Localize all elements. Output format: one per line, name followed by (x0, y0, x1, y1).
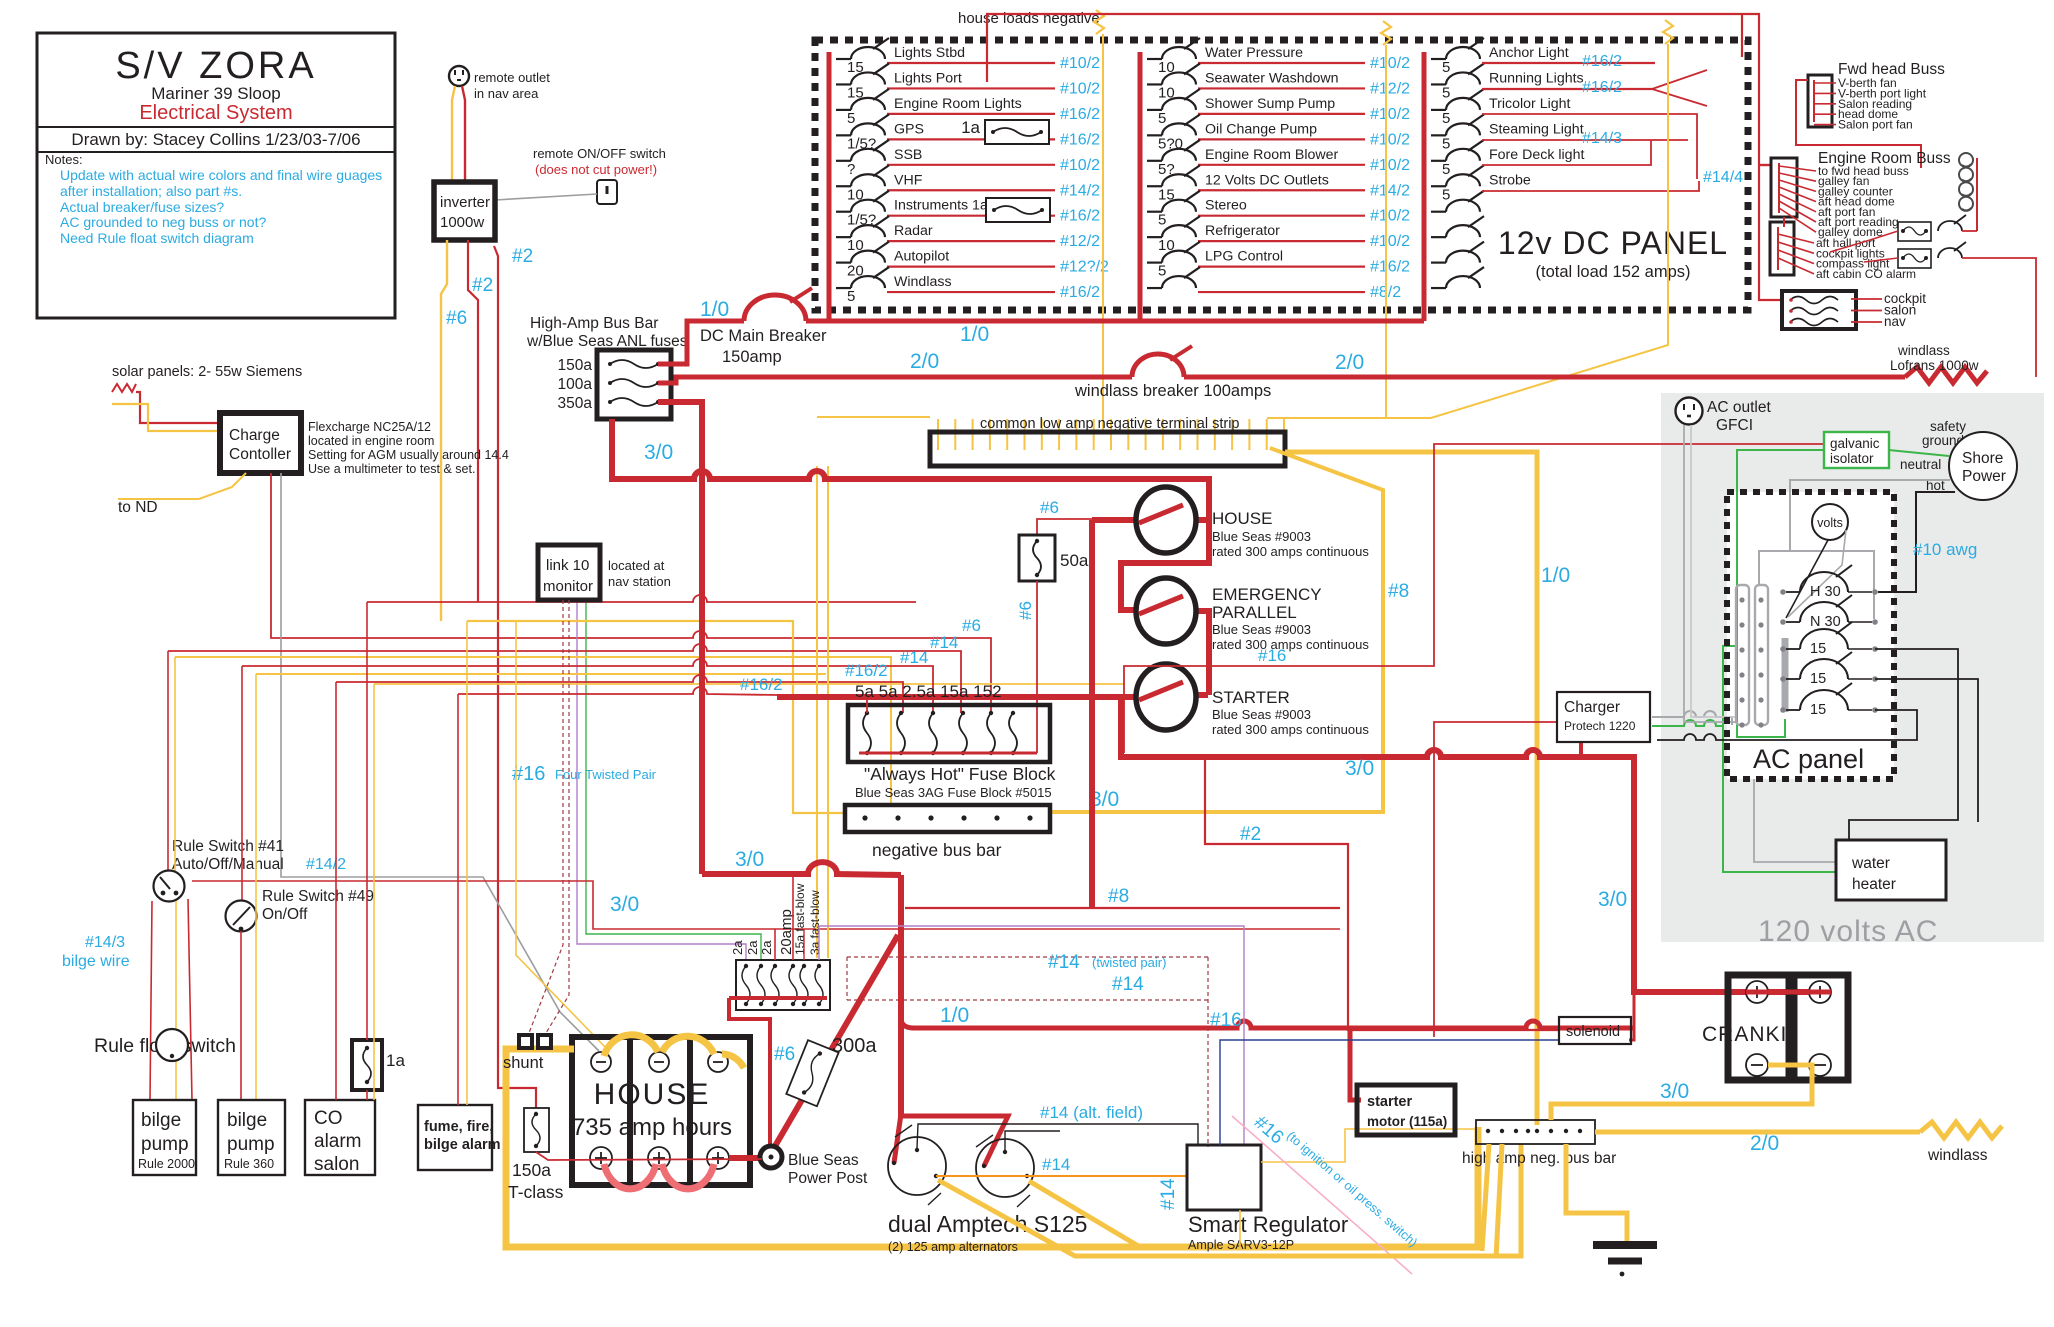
svg-text:#10/2: #10/2 (1370, 106, 1410, 123)
svg-text:#10/2: #10/2 (1370, 208, 1410, 225)
gang switch dots (1789, 298, 1793, 324)
svg-text:#2: #2 (472, 275, 493, 296)
wire red center vertical (898, 875, 904, 1116)
svg-text:pump: pump (227, 1134, 275, 1155)
svg-text:#14/4: #14/4 (1703, 169, 1743, 186)
svg-text:link 10: link 10 (546, 557, 589, 574)
wire red Radar feed (887, 240, 1055, 242)
high amp bus bar dots (1486, 1129, 1582, 1133)
svg-text:Autopilot: Autopilot (894, 249, 949, 265)
svg-text:#14: #14 (930, 633, 958, 652)
breaker Steaming Light 5A (1431, 114, 1484, 152)
starter motor box (1357, 1085, 1455, 1135)
wire gray remote switch to inverter (495, 194, 597, 200)
yellow squiggle top 3 (1663, 20, 1673, 44)
wire red rule41 up (167, 651, 169, 872)
wire yellow negative drop 1 (1102, 34, 1104, 432)
svg-text:#10 awg: #10 awg (1913, 540, 1977, 559)
svg-text:Rule 360: Rule 360 (224, 1157, 274, 1171)
svg-text:Charger: Charger (1564, 699, 1620, 716)
wire red controller down bundle #6 (271, 473, 991, 713)
pink ignition wire (1232, 1116, 1412, 1274)
svg-text:in nav area: in nav area (474, 86, 539, 101)
battery 1 plus terminal (590, 1147, 612, 1169)
wire yellow busbar drop left1 (1482, 1144, 1489, 1251)
breaker Anchor Light 5A (1431, 38, 1484, 76)
svg-text:(twisted pair): (twisted pair) (1092, 955, 1166, 970)
battery 2 plus terminal (648, 1147, 670, 1169)
wire yellow shunt trunk (506, 1049, 1478, 1247)
wire navy reg to solenoid (1220, 1040, 1559, 1145)
wire red small block bottom bar (729, 996, 827, 1000)
wire red 1/0 panel trunk (806, 319, 1424, 324)
wire red Engine Room Blower feed (1198, 164, 1365, 166)
svg-text:#16/2: #16/2 (1370, 259, 1410, 276)
svg-text:Salon port fan: Salon port fan (1838, 118, 1913, 132)
svg-text:735 amp hours: 735 amp hours (572, 1114, 732, 1141)
wire red house bus 3/0 (1089, 520, 1095, 908)
gang switch wave 1 (1790, 297, 1838, 304)
solenoid box (1559, 1017, 1631, 1044)
AC panel interior white (1727, 492, 1894, 779)
wire yellow alt1 neg (938, 1144, 1521, 1256)
wire red fwd buss stub Salon reading (1814, 103, 1836, 105)
breaker spare col2 A (1147, 267, 1200, 288)
svg-text:remote outlet: remote outlet (474, 70, 550, 85)
svg-text:remote ON/OFF switch: remote ON/OFF switch (533, 146, 666, 161)
wire red erb2 stub compass light (1778, 250, 1814, 264)
yellow jumper tail (722, 1054, 744, 1068)
wire dashed link10 b (546, 600, 569, 1033)
wire yellow strip drop b (827, 466, 829, 958)
svg-text:#16/2: #16/2 (1060, 131, 1100, 148)
wire red 20amp riser (792, 875, 794, 960)
wire red charger stub (1579, 742, 1583, 757)
wire green isolator left (1737, 450, 1824, 737)
small fuse 5 (800, 964, 808, 1006)
wire red compass out (1962, 258, 2036, 377)
AC panel volts meter (1812, 504, 1848, 540)
GPS inline fuse 1a (961, 118, 1049, 144)
wire red crank plus link (1746, 990, 1831, 995)
svg-text:5: 5 (1158, 212, 1166, 229)
wire yellow rule41 down (175, 901, 177, 1100)
wire red steaming light (1482, 139, 1688, 141)
wire red 150a to main breaker (658, 321, 744, 364)
svg-text:shunt: shunt (503, 1054, 544, 1072)
svg-text:#6: #6 (962, 616, 981, 635)
gang switch wave 2 (1790, 308, 1838, 315)
breaker GPS 1/5?A (836, 114, 889, 152)
wire black alt2 field stub (1005, 1131, 1060, 1150)
yellow squiggle top 1 (1094, 10, 1104, 34)
wire red starter right (1196, 692, 1208, 698)
wire purple 3a wire (819, 926, 1244, 1145)
wire gray shore neutral (1790, 480, 1950, 619)
wire red Engine Room Lights feed (887, 113, 1055, 115)
svg-text:#16/2: #16/2 (1060, 284, 1100, 301)
breaker Autopilot 20A (836, 242, 889, 280)
wire gray outlet drop 2 (1691, 425, 1736, 717)
svg-text:Shore: Shore (1962, 450, 2003, 467)
svg-text:Rule 2000: Rule 2000 (138, 1157, 195, 1171)
wire red 350a to center trunk (658, 402, 702, 874)
wire gray volts right (1788, 530, 1846, 617)
wire red 12 Volts DC Outlets feed (1198, 189, 1365, 191)
12v DC panel dashed border (815, 40, 1748, 310)
svg-text:monitor: monitor (543, 578, 593, 595)
svg-text:#16: #16 (1210, 1010, 1242, 1031)
shunt block 1 (519, 1035, 532, 1048)
svg-text:Fore Deck light: Fore Deck light (1489, 147, 1584, 163)
small fuse 4 (789, 964, 797, 1006)
alternator 1 (888, 1137, 946, 1195)
svg-text:Engine Room Blower: Engine Room Blower (1205, 147, 1339, 163)
wire red running fan down (1652, 89, 1707, 106)
3-gang light switch box (1782, 291, 1856, 329)
wire black alt field (917, 1124, 1198, 1148)
wire red 1/0 elbow (901, 1018, 914, 1028)
svg-text:Running Lights: Running Lights (1489, 70, 1584, 86)
breaker Engine Room Blower 5?A (1147, 140, 1200, 178)
svg-text:3/0: 3/0 (1345, 757, 1374, 780)
ground symbol (1593, 1245, 1657, 1276)
wire red erb stub aft head dome (1779, 187, 1816, 202)
wire red house switch right (1196, 517, 1209, 523)
svg-text:Smart Regulator: Smart Regulator (1188, 1212, 1348, 1237)
svg-text:5: 5 (847, 110, 855, 127)
svg-text:2/0: 2/0 (910, 350, 939, 373)
negative bus bar dots (862, 815, 1032, 820)
battery switch HOUSE (1136, 487, 1196, 553)
svg-text:Actual breaker/fuse sizes?: Actual breaker/fuse sizes? (60, 199, 224, 215)
wire yellow bundle y657 to negbus (175, 657, 891, 805)
svg-text:EMERGENCY: EMERGENCY (1212, 585, 1322, 604)
svg-text:5: 5 (1158, 263, 1166, 280)
wire purple link10 to fuse1 (577, 600, 746, 960)
wire red rule41 down a (150, 901, 152, 1100)
svg-text:Auto/Off/Manual: Auto/Off/Manual (172, 856, 284, 873)
smart regulator box (1187, 1145, 1261, 1210)
svg-text:bilge wire: bilge wire (62, 953, 130, 970)
svg-text:#2: #2 (512, 246, 533, 267)
svg-text:Windlass: Windlass (894, 274, 952, 290)
breaker Oil Change Pump 5?0A (1147, 114, 1200, 152)
dashed twisted pair bottom (847, 999, 1208, 1001)
wire gray outlet drop 1 (1684, 425, 1736, 722)
svg-text:300a: 300a (832, 1035, 877, 1057)
cabin lamp 2 (1959, 168, 1973, 182)
svg-text:1a: 1a (386, 1051, 405, 1070)
wire red tricolor light (1482, 114, 1697, 179)
svg-text:Flexcharge NC25A/12: Flexcharge NC25A/12 (308, 420, 431, 434)
alt2 top dot (1003, 1150, 1007, 1154)
svg-text:Anchor Light: Anchor Light (1489, 45, 1569, 61)
inline fuse cockpit lights (1898, 222, 1931, 241)
svg-text:solenoid: solenoid (1566, 1024, 1620, 1040)
bus bar fuse 350a (608, 398, 660, 406)
wire red 3/0 center horizontal (702, 862, 901, 875)
wire red Lights Stbd feed (887, 62, 1055, 64)
breaker Shower Sump Pump 5A (1147, 89, 1200, 127)
battery 3 plus terminal (707, 1147, 729, 1169)
svg-text:1/0: 1/0 (940, 1004, 969, 1027)
breaker Lights Port 15A (836, 63, 889, 101)
svg-text:Steaming Light: Steaming Light (1489, 121, 1584, 137)
wire red always hot bottom bar (859, 752, 1037, 755)
wire yellow negative drop 3 (1267, 44, 1668, 418)
wire red erb link (1783, 217, 1785, 227)
bus bar fuse 100a (608, 379, 660, 387)
svg-text:(2) 125 amp alternators: (2) 125 amp alternators (888, 1240, 1018, 1254)
high amp neg bus bar box (1476, 1120, 1595, 1144)
breaker Stereo 5A (1147, 191, 1200, 229)
svg-text:#12/2: #12/2 (1060, 233, 1100, 250)
wire red lamps bus (1976, 158, 1978, 231)
wire black 15a loop right (1849, 649, 1958, 840)
svg-text:Lofrans 1000w: Lofrans 1000w (1890, 358, 1979, 373)
svg-text:Shower Sump Pump: Shower Sump Pump (1205, 96, 1335, 112)
alt2 brush slash (976, 1135, 993, 1147)
wire red rule49 up (241, 666, 243, 901)
AC outlet strip left 1 (1736, 585, 1749, 725)
windlass motor squiggle (1905, 367, 1987, 383)
wire red solenoid right (1629, 992, 1634, 1040)
svg-text:2/0: 2/0 (1335, 351, 1364, 374)
wire red Water Pressure feed (1198, 62, 1365, 64)
battery 3 minus terminal (708, 1052, 728, 1072)
wire yellow fume (466, 621, 468, 1105)
wire red erb stub aft port fan (1779, 194, 1816, 212)
fuse 50a box (1019, 535, 1055, 581)
svg-text:1/0: 1/0 (1541, 564, 1570, 587)
wire red erb stub galley dome (1779, 208, 1816, 232)
svg-text:5: 5 (1442, 84, 1450, 101)
AC 120V zone background (1661, 393, 2044, 942)
AC panel dashed border (1727, 492, 1894, 779)
wire yellow reg to busbar (1261, 1129, 1476, 1162)
always-hot fuse 5 (987, 711, 995, 755)
svg-text:#12?/2: #12?/2 (1060, 259, 1109, 276)
wire red co alarm2 (335, 682, 337, 1100)
breaker Windlass 5A (836, 267, 889, 305)
wire red GPS feed (887, 138, 1055, 140)
battery 2 minus terminal (649, 1052, 669, 1072)
crank2 minus terminal (1809, 1054, 1831, 1076)
svg-text:fume, fire,: fume, fire, (424, 1119, 493, 1135)
alt1 top dot (915, 1148, 919, 1152)
wire yellow bundle y684 (374, 683, 1124, 685)
AC strip dots (1739, 597, 1763, 727)
wire yellow link10 sense (516, 621, 605, 1047)
svg-text:motor (115a): motor (115a) (1367, 1114, 1447, 1129)
cranking battery cell 2 (1794, 975, 1848, 1080)
svg-text:located at: located at (608, 558, 665, 573)
svg-text:CRANKI: CRANKI (1702, 1023, 1787, 1046)
windlass yellow squiggle (1920, 1122, 2002, 1138)
high-amp bus bar box (597, 350, 671, 419)
wire red fwd buss stub head dome (1814, 113, 1836, 115)
remote outlet symbol (449, 66, 469, 86)
wire red #8 branch (905, 907, 1340, 909)
wire red Instruments 1a feed (887, 215, 1055, 217)
svg-text:#14/2: #14/2 (306, 856, 346, 873)
wire red #16-2 to starter trunk (458, 687, 777, 695)
svg-text:pump: pump (141, 1134, 189, 1155)
always-hot fuse 6 (1009, 711, 1017, 755)
svg-text:#6: #6 (446, 308, 467, 329)
wire red compass link (1864, 258, 1898, 262)
svg-text:PARALLEL: PARALLEL (1212, 603, 1297, 622)
water heater box (1836, 840, 1946, 900)
svg-text:Water Pressure: Water Pressure (1205, 45, 1303, 61)
DC main breaker arc (744, 295, 806, 321)
svg-text:Power Post: Power Post (788, 1170, 868, 1187)
svg-text:#16/2: #16/2 (1060, 208, 1100, 225)
svg-text:AC panel: AC panel (1753, 744, 1864, 774)
svg-text:to ND: to ND (118, 499, 158, 516)
small fuse 1 (742, 964, 750, 1006)
wire red 3/0 busbar to house switch (612, 419, 1209, 610)
svg-text:H 30: H 30 (1810, 584, 1841, 600)
breaker spare col3 A (1431, 216, 1484, 237)
yellow squiggle top 2 (1381, 21, 1391, 45)
wire red starter feed (777, 694, 1136, 700)
wire red Lights Port feed (887, 87, 1055, 89)
panel bus column 3 (1422, 52, 1427, 321)
svg-text:#10/2: #10/2 (1370, 55, 1410, 72)
svg-text:#12/2: #12/2 (1370, 80, 1410, 97)
svg-text:SSB: SSB (894, 147, 922, 163)
AC neutral bus bar (1782, 638, 1789, 712)
breaker Instruments 1a 1/5?A (836, 191, 889, 229)
wire red strobe (1482, 181, 1699, 191)
svg-text:Rule Switch #49: Rule Switch #49 (262, 888, 374, 905)
svg-text:150a: 150a (512, 1160, 551, 1180)
breaker sym cockpit lights (1938, 215, 1966, 231)
svg-text:120 volts AC: 120 volts AC (1758, 915, 1938, 948)
wire yellow rule49 down (255, 674, 257, 1100)
wire gray branch charger (1652, 711, 1732, 725)
wire red erb2 stub aft hall port (1778, 234, 1814, 243)
wire red erb stub galley fan (1779, 173, 1816, 181)
wire red Stereo feed (1198, 215, 1365, 217)
svg-text:Strobe: Strobe (1489, 172, 1531, 188)
wire yellow busbar drop left2 (1496, 1144, 1502, 1258)
wire yellow reg down (1239, 1210, 1241, 1247)
svg-text:100a: 100a (558, 376, 593, 393)
negative terminal strip box (930, 432, 1285, 466)
svg-text:5: 5 (1158, 110, 1166, 127)
svg-text:rated 300 amps continuous: rated 300 amps continuous (1212, 637, 1369, 652)
wire red Windlass feed (887, 291, 1055, 293)
wire red 50a down #6 (1036, 581, 1038, 753)
svg-text:#16/2: #16/2 (1060, 106, 1100, 123)
wire red alwayshot drop #16-2 (336, 675, 903, 713)
wire red tclass to post (536, 1152, 762, 1160)
breaker Tricolor Light 5A (1431, 89, 1484, 127)
svg-text:#16: #16 (1258, 646, 1286, 665)
wire red co alarm (366, 602, 368, 1040)
wire red fuse1 stub (866, 699, 868, 713)
svg-text:STARTER: STARTER (1212, 688, 1290, 707)
wire red erb feed (1759, 164, 1771, 166)
svg-text:#16/2: #16/2 (1582, 79, 1622, 96)
small fuse block box (736, 960, 830, 1010)
battery 1 minus terminal (591, 1052, 611, 1072)
wire red inverter down #2a (468, 240, 478, 602)
svg-text:#6: #6 (774, 1044, 795, 1065)
svg-text:neutral: neutral (1900, 457, 1941, 472)
svg-text:aft cabin CO alarm: aft cabin CO alarm (1816, 267, 1916, 281)
breaker Running Lights 5A (1431, 63, 1484, 101)
engine room buss box 2 (1770, 222, 1794, 275)
breaker 12 Volts DC Outlets 15A (1147, 165, 1200, 203)
svg-text:#10/2: #10/2 (1060, 55, 1100, 72)
wire black 15c loop (1657, 710, 1917, 740)
wire red alwayshot drop #14 a (168, 644, 961, 713)
svg-text:Lights Port: Lights Port (894, 70, 962, 86)
small fuse 6 (815, 964, 823, 1006)
breaker spare col3 A (1431, 267, 1484, 288)
fume fire bilge alarm box (418, 1105, 492, 1170)
svg-text:Oil Change Pump: Oil Change Pump (1205, 121, 1317, 137)
wire red house plus to post (729, 1155, 762, 1161)
wire red charger feed thin (1434, 722, 1557, 1037)
breaker SSB ?A (836, 140, 889, 178)
wire red co alarm low (366, 1090, 368, 1100)
svg-text:Mariner 39 Sloop: Mariner 39 Sloop (151, 84, 280, 103)
svg-text:Blue Seas: Blue Seas (788, 1152, 859, 1169)
always-hot fuse 1 (863, 711, 871, 755)
wire red erb stub galley counter (1779, 180, 1816, 191)
svg-text:2a: 2a (730, 940, 745, 955)
svg-text:15: 15 (1810, 641, 1826, 657)
fuse 300a box (786, 1040, 838, 1106)
svg-text:Blue Seas #9003: Blue Seas #9003 (1212, 707, 1311, 722)
svg-text:inverter: inverter (440, 194, 490, 211)
wire green branch charger (1652, 720, 1723, 726)
svg-text:3/0: 3/0 (1598, 888, 1627, 911)
engine room buss bus 1 (1778, 163, 1780, 213)
cabin lamp 3 (1959, 182, 1973, 196)
wire red gang out nav (1851, 321, 1882, 323)
svg-text:N 30: N 30 (1810, 614, 1841, 630)
wire red bundle y602 CO feed (367, 595, 916, 602)
breaker spare col3 A (1431, 191, 1484, 212)
svg-text:windlass: windlass (1927, 1147, 1988, 1164)
cabin lamp 4 (1959, 197, 1973, 211)
title block frame (37, 33, 395, 318)
svg-text:Stereo: Stereo (1205, 198, 1247, 214)
svg-text:Engine Room Lights: Engine Room Lights (894, 96, 1022, 112)
charger box (1557, 692, 1650, 742)
svg-text:T-class: T-class (508, 1182, 564, 1202)
wire yellow alt2 neg (1029, 1181, 1140, 1247)
svg-text:#8: #8 (1388, 581, 1409, 602)
wire red #2 drop (1205, 757, 1559, 1030)
svg-text:Rule Switch #41: Rule Switch #41 (172, 838, 284, 855)
rule float switch circle (156, 1029, 188, 1061)
wire yellow ground branch (1566, 1144, 1627, 1241)
wire red erb stub aft port reading (1779, 201, 1816, 222)
svg-text:(does not cut power!): (does not cut power!) (535, 162, 657, 177)
breaker sym compass light (1938, 242, 1966, 258)
wire orange alt to reg (936, 1175, 1187, 1177)
wire black 15b loop right (1875, 679, 1978, 822)
wire yellow 3/0 house negative (1050, 448, 1383, 812)
svg-text:AC grounded to neg buss or not: AC grounded to neg buss or not? (60, 214, 266, 230)
